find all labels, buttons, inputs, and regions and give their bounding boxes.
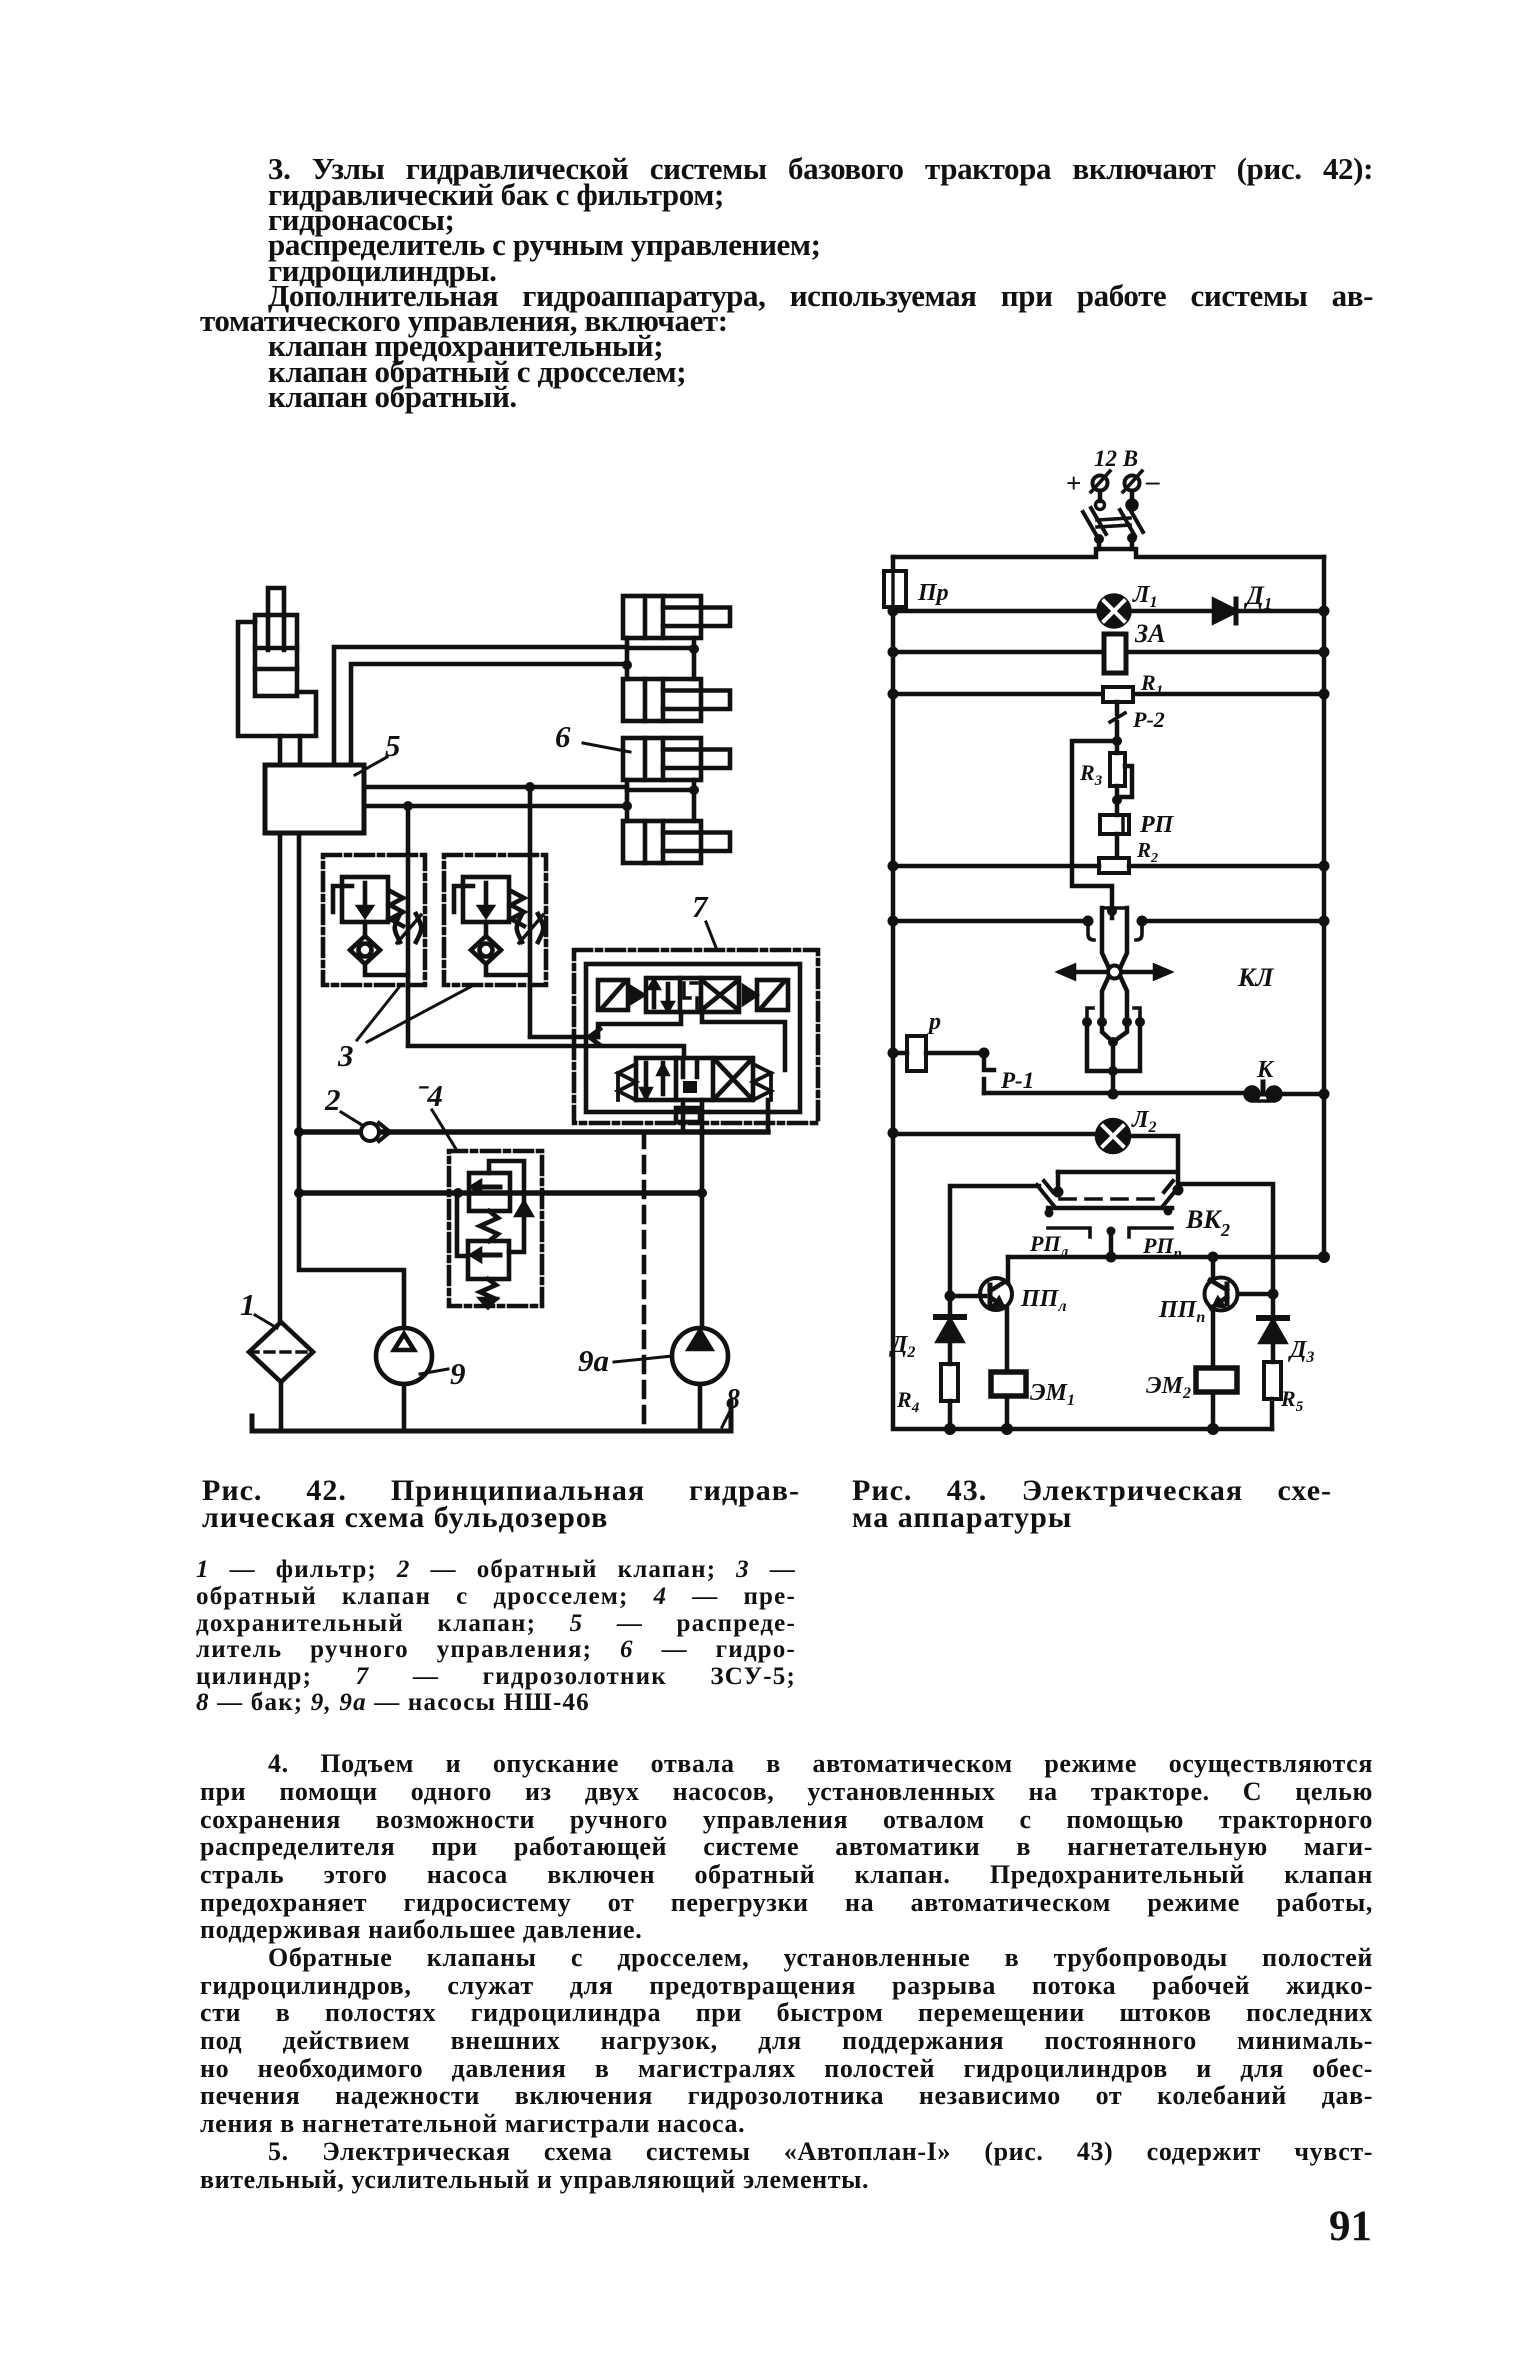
svg-text:Д1: Д1 [1244,581,1272,613]
svg-text:8: 8 [726,1384,740,1415]
svg-text:ˉ4: ˉ4 [417,1078,443,1113]
svg-text:Пр: Пр [917,580,949,606]
svg-text:РПл: РПл [1029,1231,1069,1260]
svg-text:Д2: Д2 [889,1332,915,1361]
svg-text:3: 3 [337,1038,354,1073]
svg-text:7: 7 [692,889,709,924]
svg-text:R4: R4 [896,1387,920,1416]
svg-text:Д3: Д3 [1288,1337,1314,1366]
svg-text:Л1: Л1 [1132,582,1157,611]
svg-text:р: р [927,1009,941,1035]
svg-text:ВК2: ВК2 [1185,1205,1230,1240]
svg-text:R2: R2 [1136,838,1158,866]
svg-text:–: – [1145,466,1160,496]
svg-text:Р-2: Р-2 [1132,707,1165,732]
svg-text:R3: R3 [1079,760,1103,789]
svg-text:КЛ: КЛ [1237,963,1275,992]
svg-text:+: + [1066,468,1081,498]
svg-text:РПп: РПп [1142,1233,1182,1262]
svg-text:Р-1: Р-1 [1000,1068,1034,1093]
svg-text:12 В: 12 В [1094,446,1138,471]
svg-text:R1: R1 [1140,670,1163,699]
svg-text:ППп: ППп [1158,1297,1205,1326]
svg-text:РП: РП [1139,812,1175,838]
svg-text:2: 2 [324,1082,341,1117]
svg-text:9: 9 [450,1356,466,1391]
svg-text:1: 1 [240,1287,256,1322]
svg-text:ЭМ2: ЭМ2 [1146,1373,1191,1402]
svg-text:ЗА: ЗА [1134,619,1166,648]
svg-text:R5: R5 [1280,1386,1304,1415]
svg-text:6: 6 [555,719,571,754]
svg-text:ЭМ1: ЭМ1 [1030,1380,1075,1409]
svg-text:9а: 9а [578,1343,609,1378]
svg-text:Л2: Л2 [1131,1107,1156,1136]
svg-text:5: 5 [385,728,401,763]
svg-text:К: К [1256,1057,1275,1083]
svg-text:ППл: ППл [1020,1286,1067,1315]
